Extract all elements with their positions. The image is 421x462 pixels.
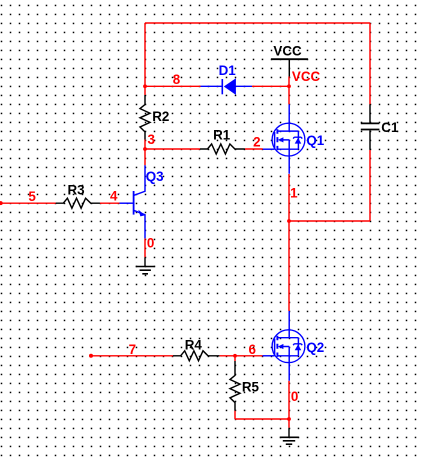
wire Q3 emitter to ground — [144, 238, 146, 257]
resistor R1 — [200, 144, 245, 154]
transistor Q3 — [120, 165, 146, 238]
ground bottom — [280, 428, 299, 444]
resistor R3 — [56, 198, 100, 208]
svg-text:R2: R2 — [152, 109, 169, 124]
wire net 3 vertical to Q3 collector — [144, 149, 146, 165]
wire net 1 horizontal — [289, 220, 370, 222]
wire R5 top stub — [234, 356, 236, 361]
capacitor C1 — [361, 104, 380, 150]
wire Q2 source down — [288, 381, 290, 419]
junction node 0 bottom — [287, 417, 291, 421]
wire net 6 R4 to Q2 gate — [219, 355, 262, 357]
mosfet Q1 — [263, 104, 305, 173]
svg-text:Q1: Q1 — [306, 133, 324, 148]
junction node 3 — [143, 147, 147, 151]
svg-text:0: 0 — [291, 389, 298, 404]
wire VCC stub down to Q1 drain — [288, 77, 290, 105]
wire net 8 horizontal to D1 — [145, 85, 201, 87]
junction node 1 — [287, 219, 291, 223]
svg-text:8: 8 — [173, 72, 181, 87]
svg-text:2: 2 — [253, 135, 260, 150]
wire D1 to VCC node — [252, 85, 289, 87]
svg-text:R4: R4 — [185, 337, 203, 352]
wire net 0 to ground — [288, 419, 290, 428]
wire net 2 R1 to Q1 gate — [245, 148, 263, 150]
wire net 3 horizontal to R1 — [145, 148, 200, 150]
svg-text:1: 1 — [290, 186, 298, 201]
svg-text:D1: D1 — [219, 63, 237, 78]
svg-text:Q3: Q3 — [146, 169, 164, 184]
terminal node 5 — [0, 201, 3, 205]
wire left vertical net 8 — [144, 23, 146, 86]
wire right vertical C1 bottom — [369, 150, 371, 221]
svg-text:R5: R5 — [242, 380, 260, 395]
wire net 1 vertical Q1 source to Q2 drain — [288, 174, 290, 311]
svg-text:R1: R1 — [213, 127, 231, 142]
junction node 6 — [233, 354, 237, 358]
mosfet Q2 — [263, 311, 305, 381]
svg-text:4: 4 — [110, 189, 118, 204]
svg-text:5: 5 — [28, 189, 36, 204]
wire net 0 horizontal bottom — [235, 418, 289, 420]
terminal node 7 — [89, 354, 93, 358]
wire right vertical C1 top — [369, 23, 371, 104]
wire net 4 R3 to Q3 base — [100, 202, 120, 204]
svg-text:C1: C1 — [381, 120, 399, 135]
svg-text:VCC: VCC — [292, 69, 321, 84]
svg-text:VCC: VCC — [273, 44, 302, 59]
wire net 5 to R3 — [1, 202, 56, 204]
resistor R5 — [230, 361, 240, 411]
wire R5 bottom to net 0 — [234, 411, 236, 419]
svg-text:6: 6 — [249, 342, 256, 357]
wire R2 top stub — [144, 86, 146, 95]
junction node 8 left — [143, 84, 147, 88]
arrow Q3 emitter — [138, 210, 145, 217]
resistor R2 — [140, 95, 150, 140]
junction node VCC — [287, 84, 291, 88]
wire top rail net VCC-to-C1 — [145, 22, 370, 24]
svg-text:7: 7 — [129, 342, 136, 357]
svg-text:0: 0 — [147, 236, 154, 251]
svg-text:R3: R3 — [68, 183, 85, 198]
svg-text:Q2: Q2 — [306, 340, 324, 355]
wire net 7 to R4 — [91, 355, 173, 357]
diode D1 — [201, 78, 253, 95]
wire R2 bottom stub — [144, 140, 146, 150]
svg-text:3: 3 — [148, 132, 155, 147]
resistor R4 — [173, 351, 219, 361]
power symbol VCC — [271, 59, 308, 76]
ground under Q3 — [136, 257, 155, 274]
